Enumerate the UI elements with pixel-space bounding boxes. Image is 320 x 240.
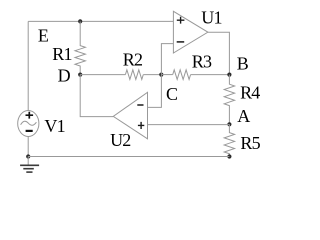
wire: bottom net from ground junction to bottom right junction [28,156,229,158]
resistor R4 [224,75,234,125]
svg-text:R5: R5 [240,133,260,153]
svg-text:U2: U2 [110,130,130,150]
svg-text:A: A [237,106,250,126]
svg-text:D: D [58,66,71,86]
ground [20,157,39,173]
node dot: ground junction bottom left [26,154,30,158]
resistor R5 [224,124,234,156]
svg-text:R3: R3 [192,52,212,72]
wire: U1 - input to node C junction [161,44,173,75]
node dot A [227,122,231,126]
voltage source V1 [18,111,39,137]
wire: R3 right lead to node B [191,74,230,76]
wire: U1 output to node B [208,32,230,74]
resistor R2 [125,70,143,80]
wire: V1 bottom to ground junction [27,136,29,156]
resistor R3 [173,70,191,80]
svg-text:B: B [237,54,249,74]
resistor R1 [75,21,85,74]
svg-text:E: E [38,26,49,46]
op-amp U1 [173,11,208,53]
node dot: C junction on main net [159,73,163,77]
wire: R2 right lead to node C junction [143,74,161,76]
node dot: bottom right junction [227,154,231,158]
wire: top net from node E to U1 + input [28,20,173,22]
wire: U2 + input to node A [148,124,230,126]
op-amp U2 [113,92,147,139]
svg-text:U1: U1 [201,7,221,27]
wire: node C junction to R3 left lead [161,74,172,76]
wire: U2 output to node D [80,75,113,117]
wire: U2 - input to node C junction [148,75,162,108]
wire: left rail from top corner down to V1 top [27,21,29,110]
wire: node D to R2 left lead [80,74,125,76]
svg-text:R1: R1 [52,44,71,64]
svg-text:R4: R4 [240,83,260,103]
node dot B [227,73,231,77]
svg-text:V1: V1 [44,116,64,136]
node dot D [78,73,82,77]
node dot: junction of R1 with top net [78,19,82,23]
svg-text:R2: R2 [123,49,142,69]
svg-text:C: C [166,84,178,104]
